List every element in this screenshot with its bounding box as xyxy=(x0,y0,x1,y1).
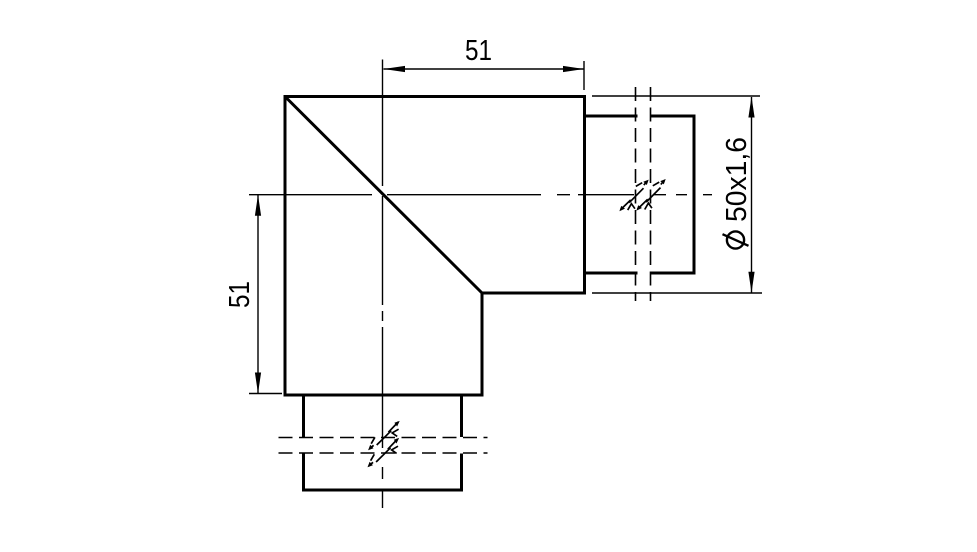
dimension dia 50x1,6 right: dimension line xyxy=(751,97,753,293)
hidden line right stub lower xyxy=(650,87,652,301)
dimension 51 top: left arrowhead xyxy=(384,66,406,72)
body right edge xyxy=(583,95,586,293)
svg-text:51: 51 xyxy=(224,281,256,308)
break symbol right stub xyxy=(619,179,665,211)
dimension dia 50x1,6 right: bottom extension line xyxy=(592,292,762,294)
dimension dia 50x1,6 right: bottom arrowhead xyxy=(748,272,754,293)
dimension 51 left: dimension line xyxy=(257,195,259,394)
body bottom edge xyxy=(285,394,484,397)
dimension 51 top: right arrowhead xyxy=(563,66,584,72)
bottom stub left edge xyxy=(302,397,305,492)
body top edge xyxy=(285,95,585,98)
body step edge xyxy=(482,292,586,295)
hidden line bottom stub left xyxy=(279,437,488,439)
bottom stub right edge xyxy=(460,397,463,492)
dimension dia 50x1,6 right: diameter symbol slash xyxy=(723,234,749,246)
horizontal centerline xyxy=(249,194,712,196)
dimension 51 left: bottom extension line xyxy=(249,393,282,395)
dimension 51 top: dimension line xyxy=(384,68,585,70)
hidden line right stub upper xyxy=(635,87,637,301)
svg-text:51: 51 xyxy=(465,35,492,67)
body inner vertical edge xyxy=(481,292,484,396)
body diagonal edge xyxy=(285,97,482,294)
dimension dia 50x1,6 right: top extension line xyxy=(592,95,760,97)
dimension dia 50x1,6 right: diameter symbol circle xyxy=(727,231,744,248)
hidden line bottom stub right xyxy=(279,452,488,454)
vertical centerline xyxy=(382,60,384,509)
dimension 51 top: right extension line xyxy=(583,61,585,90)
dimension dia 50x1,6 right: top arrowhead xyxy=(748,97,754,118)
svg-text:50x1,6: 50x1,6 xyxy=(721,137,753,222)
body left edge xyxy=(284,95,287,397)
bottom stub bottom edge xyxy=(302,489,463,492)
break symbol bottom stub xyxy=(368,421,400,467)
right stub top edge xyxy=(586,115,694,118)
right stub bottom edge xyxy=(586,272,694,275)
dimension 51 left: top arrowhead xyxy=(255,195,261,216)
dimension 51 left: bottom arrowhead xyxy=(255,373,261,394)
right stub right edge xyxy=(693,115,696,275)
